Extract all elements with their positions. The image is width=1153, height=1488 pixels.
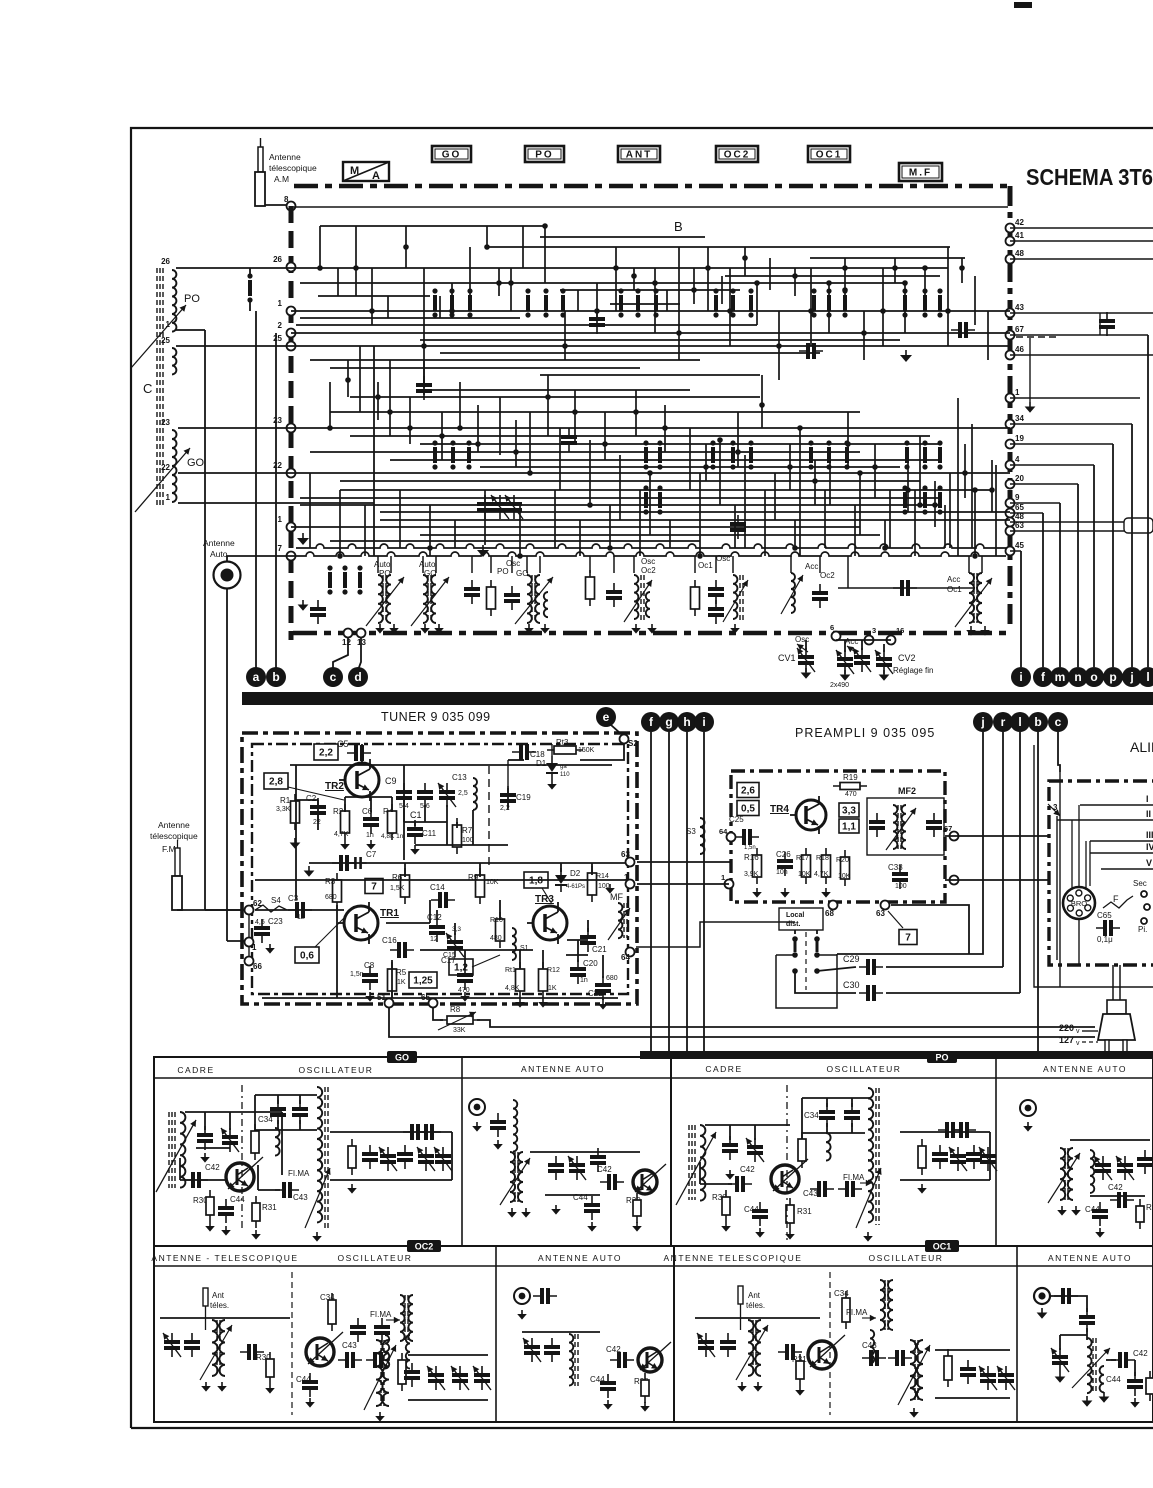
svg-text:65: 65: [1015, 503, 1024, 512]
wire: [262, 997, 618, 999]
band label M.F: [899, 163, 942, 181]
wire: [974, 520, 976, 556]
wire: [386, 922, 430, 924]
wire: [249, 268, 251, 276]
AM block bottom dash-dot border: [293, 631, 1010, 636]
switch contact: [644, 492, 648, 508]
svg-text:CADRE: CADRE: [705, 1064, 742, 1074]
terminal l: [1138, 667, 1153, 687]
tuner border inner: [252, 744, 628, 994]
wire: [439, 296, 441, 318]
wire: [776, 954, 795, 956]
wire dashed 67: [1016, 336, 1060, 338]
resistor R8: [447, 1016, 473, 1024]
coil GO: [172, 430, 177, 502]
node 25 on left bus: [287, 342, 296, 351]
junction: [703, 464, 709, 470]
svg-text:R8: R8: [450, 1005, 461, 1014]
junction: [594, 308, 600, 314]
coil GO tuning arrow: [135, 448, 190, 512]
transformer: [1060, 1148, 1065, 1200]
band tag OC1: [925, 1240, 959, 1252]
boxed gain 7: [365, 879, 383, 894]
wire: [700, 1183, 732, 1185]
wire l drop: [1147, 335, 1149, 667]
svg-text:C19: C19: [516, 793, 531, 802]
junction: [439, 433, 445, 439]
wire: [574, 390, 576, 444]
scan mark top: [1014, 2, 1032, 8]
terminal r: [993, 712, 1013, 732]
wire: [945, 879, 1049, 881]
svg-text:12: 12: [430, 936, 438, 943]
wire: [329, 382, 331, 428]
wire tap1a: [176, 329, 205, 331]
svg-text:PO: PO: [497, 567, 509, 576]
coil pair oc2: [385, 1335, 389, 1369]
wire i drop: [1020, 551, 1022, 667]
svg-text:Oc1: Oc1: [947, 585, 962, 594]
svg-text:22: 22: [273, 461, 282, 470]
wire: [405, 226, 407, 268]
switch contact: [526, 295, 530, 311]
svg-text:R31: R31: [797, 1207, 812, 1216]
svg-text:MF2: MF2: [898, 786, 916, 796]
junction: [457, 425, 463, 431]
wire: [309, 473, 311, 548]
capacitor: [708, 587, 724, 591]
transistor TR1: [344, 906, 378, 940]
node 7 on left bus: [287, 552, 296, 561]
wire: [361, 744, 363, 763]
svg-text:F.M: F.M: [162, 844, 176, 854]
resistor R14: [588, 873, 597, 895]
wire: [391, 797, 393, 812]
wire: [403, 765, 405, 860]
svg-text:C43: C43: [862, 1341, 877, 1350]
capacitor: [477, 502, 493, 506]
svg-text:C42: C42: [1133, 1349, 1148, 1358]
AM block right dash-dot bus: [1008, 186, 1013, 630]
terminal j: [1122, 667, 1142, 687]
wire: [1010, 521, 1153, 523]
svg-text:4,7K: 4,7K: [334, 831, 349, 838]
switch contact: [845, 447, 849, 463]
capacitor C7: [355, 857, 360, 869]
svg-text:19: 19: [1015, 434, 1024, 443]
svg-text:CV2: CV2: [898, 653, 916, 663]
wire: [511, 556, 513, 573]
wire: [596, 283, 598, 325]
svg-text:2: 2: [278, 321, 283, 330]
resistor R3: [333, 880, 342, 902]
wire: [882, 268, 884, 346]
caps bank oc1: [960, 1367, 976, 1371]
wire: [296, 324, 757, 326]
wire: [635, 390, 637, 436]
wire: [694, 556, 696, 573]
switch lines: [794, 930, 796, 934]
junction: [962, 470, 968, 476]
capacitor: [184, 1340, 200, 1344]
svg-text:n: n: [1074, 670, 1081, 684]
capacitor pair: [410, 1124, 414, 1140]
wire: [945, 835, 1049, 837]
cadre coil GO: [180, 1112, 185, 1188]
wire m drop: [1059, 503, 1061, 667]
capacitor: [806, 343, 810, 359]
wire: [300, 504, 940, 506]
junction: [369, 308, 375, 314]
svg-text:OSCILLATEUR: OSCILLATEUR: [827, 1064, 902, 1074]
panel divider dashed oc2: [291, 1272, 293, 1415]
svg-text:Oc2: Oc2: [820, 571, 835, 580]
svg-text:PREAMPLI 9 035 095: PREAMPLI 9 035 095: [795, 726, 935, 740]
wire: [300, 282, 903, 284]
capacitor: [464, 587, 480, 591]
capacitor: [1137, 1157, 1153, 1161]
svg-text:II: II: [1146, 809, 1151, 819]
page frame: [131, 128, 1153, 1428]
svg-text:Acc: Acc: [947, 575, 960, 584]
capacitor: [590, 1155, 606, 1159]
svg-text:127: 127: [1059, 1035, 1074, 1045]
wire: [371, 268, 373, 325]
wire: [819, 556, 821, 573]
wire: [526, 556, 528, 573]
svg-text:g: g: [665, 715, 672, 729]
wire: [705, 1124, 790, 1126]
switch contact: [619, 295, 623, 311]
resistor osc po: [798, 1139, 806, 1161]
resistor R7: [453, 825, 462, 847]
junction: [587, 502, 593, 508]
switch loop: [776, 954, 837, 1008]
wire: [291, 552, 1006, 556]
resistor R5: [388, 969, 397, 991]
svg-text:67: 67: [1015, 325, 1024, 334]
svg-text:ANTENNE - TELESCOPIQUE: ANTENNE - TELESCOPIQUE: [151, 1253, 298, 1263]
junction: [527, 470, 533, 476]
svg-text:10n: 10n: [776, 869, 788, 876]
junction: [717, 437, 723, 443]
terminal d: [348, 667, 368, 687]
wire: [469, 247, 471, 296]
junction: [345, 377, 351, 383]
capacitor: [197, 1133, 213, 1137]
node 67 on right bus: [1006, 331, 1015, 340]
wire: [744, 247, 746, 276]
wire: [373, 346, 375, 556]
capacitor: [785, 1344, 789, 1360]
terminal m: [1050, 667, 1070, 687]
svg-text:OSCILLATEUR: OSCILLATEUR: [299, 1065, 374, 1075]
wire: [1050, 1296, 1087, 1312]
svg-text:1,25: 1,25: [413, 976, 433, 987]
svg-text:6: 6: [830, 623, 834, 632]
grid divider: [495, 1246, 497, 1422]
wire: [1010, 483, 1078, 485]
svg-text:C29: C29: [843, 954, 860, 964]
wire: [255, 879, 628, 881]
switch contact: [451, 447, 455, 463]
capacitor: [812, 591, 828, 595]
svg-text:S2: S2: [628, 739, 638, 748]
wire: [319, 226, 321, 268]
grid divider: [673, 1246, 675, 1422]
transistor oc2: [306, 1338, 334, 1366]
junction: [427, 545, 433, 551]
svg-text:I: I: [1146, 794, 1149, 804]
wire: [355, 226, 357, 296]
wire: [420, 534, 880, 536]
wire: [291, 332, 1010, 334]
wire: [1010, 312, 1153, 314]
svg-text:Rt1: Rt1: [505, 967, 516, 974]
transformer Auto PO: [378, 575, 383, 623]
capacitor C22: [595, 983, 611, 987]
svg-text:C22: C22: [588, 989, 603, 998]
capacitor: [310, 607, 326, 611]
svg-text:télescopique: télescopique: [269, 163, 317, 173]
coil: [512, 928, 516, 960]
svg-text:C34: C34: [834, 1289, 849, 1298]
trimmer bank: [428, 1373, 444, 1377]
svg-text:1n: 1n: [366, 832, 374, 839]
wire: [390, 459, 940, 461]
wire: [477, 405, 479, 452]
wire: [291, 310, 1010, 312]
terminal b: [1028, 712, 1048, 732]
ground: [379, 624, 381, 628]
switch contact: [658, 492, 662, 508]
lower bus bar: [640, 1051, 1153, 1059]
junction: [917, 502, 923, 508]
svg-text:26: 26: [161, 257, 170, 266]
wire: [1010, 464, 1094, 466]
junction: [787, 464, 793, 470]
svg-text:C14: C14: [430, 883, 445, 892]
svg-text:B: B: [674, 219, 683, 234]
wire: [350, 396, 760, 398]
svg-text:OSCILLATEUR: OSCILLATEUR: [338, 1253, 413, 1263]
junction: [989, 487, 995, 493]
svg-text:25: 25: [273, 334, 282, 343]
svg-text:3: 3: [872, 626, 876, 635]
wire: [248, 915, 250, 937]
wire: [579, 520, 581, 556]
switch contact: [714, 295, 718, 311]
wire: [160, 1317, 290, 1319]
svg-text:C34: C34: [804, 1111, 819, 1120]
svg-text:C3: C3: [288, 894, 299, 903]
svg-text:Auto: Auto: [419, 560, 436, 569]
node 1 on left bus: [287, 523, 296, 532]
wire: [1080, 804, 1153, 806]
wire: [769, 258, 771, 290]
junction: [475, 441, 481, 447]
junction: [421, 343, 427, 349]
junction: [972, 487, 978, 493]
wire: [522, 226, 524, 268]
wire: [774, 473, 776, 520]
wire: [559, 428, 561, 490]
capacitor C34a po: [819, 1110, 835, 1114]
svg-text:o: o: [1090, 670, 1097, 684]
grid divider: [670, 1057, 672, 1246]
wire: [359, 346, 361, 412]
boxed gain 2,2: [314, 744, 338, 760]
capacitor: [561, 435, 577, 439]
capacitor: [926, 820, 942, 824]
node 65: [429, 999, 438, 1008]
switch contact: [938, 295, 942, 311]
svg-text:FI.MA: FI.MA: [370, 1310, 392, 1319]
wire: [591, 863, 593, 875]
wire: [196, 1147, 230, 1149]
junction: [513, 449, 519, 455]
transformer oc1: [748, 1320, 754, 1376]
switch contact: [654, 295, 658, 311]
osc transformer oc2: [400, 1295, 405, 1341]
svg-text:Osc: Osc: [716, 554, 730, 563]
preampli border: [731, 771, 945, 902]
wire: [981, 556, 983, 573]
grid divider: [995, 1057, 997, 1246]
ant auto jack po: [1020, 1100, 1036, 1116]
svg-text:GO: GO: [187, 457, 205, 469]
wire: [330, 540, 700, 542]
terminal c: [1048, 712, 1068, 732]
band label OC2: [716, 146, 758, 162]
trimmer capacitor: [1117, 1163, 1133, 1167]
wire: [944, 505, 946, 548]
svg-text:33K: 33K: [453, 1027, 466, 1034]
junction: [647, 470, 653, 476]
wire: [957, 398, 959, 556]
coil: [513, 1100, 517, 1152]
switch contact: [561, 295, 565, 311]
ground: [269, 944, 271, 948]
panel divider dashed: [241, 1085, 243, 1232]
svg-text:v: v: [1076, 1028, 1080, 1035]
boxed 1,1: [839, 819, 859, 833]
resistor: [586, 577, 595, 599]
svg-text:63: 63: [876, 909, 885, 918]
switch contact: [827, 295, 831, 311]
svg-text:S1: S1: [520, 945, 529, 952]
boxed gain 1,2: [449, 959, 473, 975]
wire: [889, 490, 891, 548]
wire: [309, 862, 628, 864]
wire: [935, 1349, 1010, 1351]
wire: [433, 1008, 443, 1020]
switch contact: [905, 447, 909, 463]
junction: [662, 425, 668, 431]
transistor TR4: [796, 800, 826, 830]
node 46 on right bus: [1006, 351, 1015, 360]
wire: [255, 1094, 317, 1096]
svg-text:C16: C16: [382, 936, 397, 945]
node 34 on right bus: [1006, 420, 1015, 429]
wire: [519, 505, 521, 556]
svg-text:D2: D2: [570, 869, 581, 878]
terminal o: [1084, 667, 1104, 687]
wire: [310, 451, 860, 453]
wire: [451, 1132, 453, 1180]
wire: [639, 490, 641, 556]
node 1t: [245, 938, 254, 947]
svg-text:v: v: [1076, 1040, 1080, 1047]
wire: [884, 520, 886, 548]
boxed gain 2,8: [264, 773, 288, 789]
capacitor: [722, 1143, 738, 1147]
wire: [886, 966, 1003, 968]
trimmer capacitor: [524, 1345, 540, 1349]
coil PO: [172, 270, 176, 332]
junction: [842, 265, 848, 271]
wire: [291, 345, 1010, 347]
svg-text:D1: D1: [536, 759, 547, 768]
svg-text:C1: C1: [410, 810, 422, 820]
node 45 on right bus: [1006, 547, 1015, 556]
transformer oc2b: [376, 1340, 383, 1406]
svg-text:7: 7: [371, 882, 377, 893]
node 1 on right bus: [1006, 394, 1015, 403]
junction: [572, 409, 578, 415]
wire c wire: [1058, 732, 1060, 772]
mains plug: [1107, 1000, 1126, 1014]
svg-text:C13: C13: [452, 773, 467, 782]
plug cord: [1112, 965, 1114, 1000]
junction: [508, 280, 514, 286]
transformer Acc Oc1: [969, 573, 974, 623]
wire: [1106, 1359, 1116, 1361]
svg-text:OC2: OC2: [724, 150, 751, 161]
wire: [814, 460, 816, 505]
band tag GO: [387, 1051, 417, 1063]
panel divider dashed oc1: [829, 1272, 831, 1415]
wire j drop: [1131, 424, 1133, 667]
svg-text:C9: C9: [385, 776, 397, 786]
wire: [310, 359, 700, 361]
wire: [1070, 1139, 1150, 1141]
svg-text:68: 68: [825, 909, 834, 918]
junction: [905, 487, 911, 493]
wire: [290, 764, 612, 766]
junction: [375, 394, 381, 400]
resistor R9: [476, 875, 485, 897]
wire: [1010, 258, 1153, 260]
socket BRO: [1063, 887, 1095, 919]
caps bank go: [348, 1146, 356, 1168]
transistor go: [226, 1163, 254, 1191]
grid outer: [154, 1057, 1153, 1422]
junction: [932, 502, 938, 508]
grid divider: [461, 1057, 463, 1246]
AM block top dash-dot border: [294, 184, 1010, 189]
wire: [370, 797, 372, 812]
wire: [838, 587, 975, 589]
wire: [637, 883, 729, 885]
wire: [725, 275, 940, 277]
svg-text:OC1: OC1: [933, 1242, 952, 1252]
wire: [654, 268, 656, 333]
junction: [449, 308, 455, 314]
svg-text:64: 64: [621, 953, 630, 962]
svg-text:1,2: 1,2: [454, 963, 468, 974]
antenna FM mast: [175, 848, 180, 876]
